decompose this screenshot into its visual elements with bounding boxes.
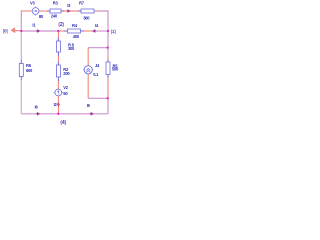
wire right vertical lower T to bottom corner (violet) xyxy=(107,98,109,114)
node (4) xyxy=(57,113,66,126)
node (2) xyxy=(57,22,64,32)
wire bottom bus left (violet) xyxy=(21,113,58,115)
wire I4 arrow to node1 (violet) xyxy=(93,30,108,32)
source V3 xyxy=(30,0,44,19)
junction dot lower T xyxy=(107,97,109,99)
wire right vertical node1 down to T (violet) xyxy=(107,31,109,48)
resistor R2 xyxy=(56,62,70,81)
wire right vertical T to R5 top (violet) xyxy=(107,48,109,56)
current arrow I4 xyxy=(93,23,99,32)
wire left vertical through R6 (violet) xyxy=(20,31,22,114)
current arrow I5 xyxy=(87,103,93,115)
source V2 xyxy=(54,85,69,96)
resistor R3 xyxy=(47,0,64,18)
wire J4 vertical below circle (red) xyxy=(87,74,89,98)
svg-text:[1]: [1] xyxy=(111,29,117,34)
svg-text:500: 500 xyxy=(112,67,119,72)
svg-text:[0]: [0] xyxy=(3,28,9,33)
current arrow I2 xyxy=(54,102,60,107)
wire between R8 and R2 (red) xyxy=(57,52,59,65)
wire middle node2 to R4 (red) xyxy=(58,30,67,32)
wire top between R3 and R7 (red) xyxy=(61,10,81,12)
wire left vertical top (violet) xyxy=(20,10,22,31)
resistor R7 xyxy=(78,0,95,20)
current arrow I3 xyxy=(67,3,71,12)
svg-text:200: 200 xyxy=(63,71,70,76)
wire top between V3 and R3 (red) xyxy=(39,10,50,12)
node [1] xyxy=(107,29,116,34)
svg-text:400: 400 xyxy=(73,34,80,39)
current arrow I1 xyxy=(32,22,39,32)
wire top-left horizontal (red) xyxy=(21,10,32,12)
resistor R8 xyxy=(56,38,75,56)
wire middle horizontal left (violet) xyxy=(21,30,58,32)
wire R5 bottom to lower T (red) xyxy=(107,75,109,98)
wire J4 vertical above circle (red) xyxy=(87,48,89,66)
wire middle vertical node2 to R8 (red) xyxy=(57,31,59,41)
wire J4 top horizontal (violet) xyxy=(88,47,108,49)
wire top-right after R7 (violet) xyxy=(95,10,99,12)
current source J4 xyxy=(83,63,100,77)
svg-text:300: 300 xyxy=(68,46,75,51)
wire V2 to node4 (red) xyxy=(57,96,59,114)
junction dot node0 left xyxy=(20,30,22,32)
wire R2 to V2 (red) xyxy=(57,78,59,89)
current arrow I6 xyxy=(35,105,40,116)
svg-text:240: 240 xyxy=(51,13,58,18)
resistor R6 xyxy=(19,60,33,80)
svg-text:(4): (4) xyxy=(60,120,66,126)
resistor R4 xyxy=(64,23,84,39)
resistor R5 xyxy=(106,59,119,78)
node marker [0] xyxy=(3,28,21,34)
junction dot upper T xyxy=(107,46,109,48)
wire J4 bottom horizontal (violet) xyxy=(88,97,108,99)
wire R4 to I4 arrow (red) xyxy=(81,30,93,32)
wire red stub above R5 xyxy=(107,56,109,62)
svg-text:600: 600 xyxy=(26,68,33,73)
wire bottom bus right (violet) xyxy=(58,113,108,115)
svg-text:(2): (2) xyxy=(58,22,64,28)
svg-text:360: 360 xyxy=(83,16,90,21)
